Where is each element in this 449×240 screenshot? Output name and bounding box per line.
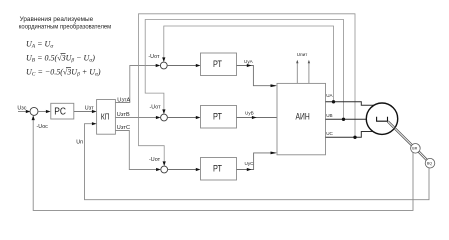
wire UуС from РТ3 to АИН	[237, 152, 278, 172]
svg-text:Uзс: Uзс	[17, 105, 26, 111]
svg-text:Uзт: Uзт	[85, 105, 94, 111]
svg-text:UуА: UуА	[244, 59, 254, 64]
position sensor BQ	[425, 158, 435, 168]
wire Uп position feedback from BQ	[76, 122, 429, 200]
block АИН (inverter)	[277, 83, 326, 154]
svg-text:UуС: UуС	[245, 161, 255, 166]
feedback wire -Uот loop B	[145, 20, 343, 120]
svg-text:-Uот: -Uот	[150, 105, 162, 111]
svg-text:РТ: РТ	[213, 164, 222, 174]
wire UзтС	[115, 125, 160, 171]
wire РС to КП, label Uзт	[74, 105, 97, 113]
svg-text:UC = −0.5(√3Uβ + Uα): UC = −0.5(√3Uβ + Uα)	[26, 67, 101, 77]
wire -Uос speed feedback from BR	[32, 115, 413, 210]
equation 3: UC = −0.5(√3Uβ + Uα)	[26, 67, 101, 77]
svg-text:UуВ: UуВ	[245, 110, 254, 115]
svg-text:Uпит: Uпит	[297, 52, 308, 57]
wire UB output	[326, 113, 367, 119]
block РТ1 (current regulator A)	[201, 53, 237, 76]
feedback wire -Uот loop A	[148, 26, 333, 102]
svg-text:координатным преобразователем: координатным преобразователем	[19, 23, 112, 31]
wire UA output	[326, 93, 374, 105]
wire node B to РТ2	[167, 116, 200, 119]
svg-text:Уравнения реализуемые: Уравнения реализуемые	[20, 16, 94, 23]
svg-text:UзтА: UзтА	[117, 98, 130, 104]
speed sensor BR	[411, 144, 421, 154]
shaft BR to BQ (double line)	[418, 151, 427, 160]
svg-text:BR: BR	[412, 147, 417, 151]
svg-text:КП: КП	[101, 112, 110, 122]
svg-text:РС: РС	[54, 106, 66, 118]
svg-text:Uп: Uп	[76, 139, 83, 145]
title text: Уравнения реализуемые координатным преобразователем	[19, 16, 112, 31]
wire UуВ from РТ2 to АИН	[237, 110, 278, 119]
junction dot UC	[353, 136, 356, 139]
svg-text:РТ: РТ	[213, 112, 222, 122]
wire UуА from РТ1 to АИН	[237, 59, 278, 87]
motor M	[366, 103, 397, 134]
block РТ2 (current regulator B)	[201, 106, 237, 129]
svg-text:-Uос: -Uос	[37, 124, 49, 130]
svg-text:UC: UC	[326, 131, 333, 136]
wire Uзс input	[17, 105, 30, 113]
svg-text:РТ: РТ	[213, 59, 222, 69]
svg-text:BQ: BQ	[427, 162, 432, 166]
equation 1: UA = Ua	[26, 39, 53, 49]
junction dot UA	[332, 100, 335, 103]
svg-text:UB = 0.5(√3Uβ − Uα): UB = 0.5(√3Uβ − Uα)	[26, 53, 95, 63]
junction dot UB	[342, 118, 345, 121]
summing node A	[160, 62, 167, 69]
wire S1 to РС	[38, 110, 51, 113]
shaft motor to BR (double line)	[387, 121, 412, 146]
summing node B	[161, 114, 168, 121]
svg-text:UA: UA	[326, 93, 333, 98]
svg-text:UB: UB	[326, 113, 332, 118]
wire UзтА	[115, 64, 160, 104]
wire node C to РТ3	[168, 168, 201, 171]
summing node S1	[30, 107, 38, 115]
equation 2: UB = 0.5(√3Uβ − Uα)	[26, 53, 95, 63]
svg-text:UзтС: UзтС	[117, 125, 130, 131]
block КП (coordinate converter)	[97, 100, 116, 135]
wire node A to РТ1	[167, 64, 200, 67]
svg-text:UA = Uα: UA = Uα	[26, 39, 53, 49]
svg-text:-Uот: -Uот	[149, 157, 161, 163]
svg-text:UзтВ: UзтВ	[117, 112, 130, 118]
feedback wire -Uот loop C	[139, 14, 356, 166]
svg-text:АИН: АИН	[296, 112, 310, 122]
summing node C	[161, 166, 168, 173]
block РС (speed controller)	[51, 103, 74, 119]
block РТ3 (current regulator C)	[201, 158, 237, 181]
wire UC output	[326, 131, 374, 137]
svg-text:-Uот: -Uот	[148, 54, 160, 60]
power supply Uпит	[296, 52, 310, 83]
wire UзтВ	[115, 112, 160, 119]
